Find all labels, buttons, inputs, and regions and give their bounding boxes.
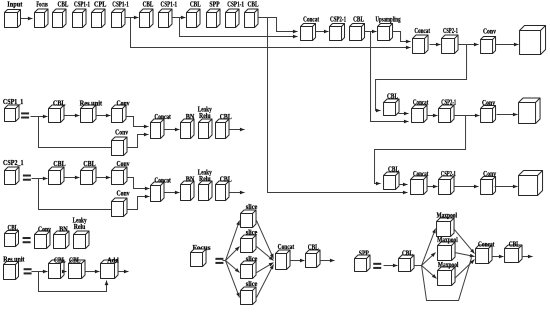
svg-text:BN: BN [186,176,195,184]
block Res unit symbol cube [4,262,19,280]
svg-text:Upsampling: Upsampling [376,15,401,23]
block CBL (backbone group2) [140,1,154,28]
wire CBL to Concat (row4) [399,183,408,187]
wire Conv upper to Concat upper (csp2) [127,178,150,191]
wire fan to slice1 [226,221,240,261]
wire CSP1_1 branch [31,116,39,118]
wire P5 long branch to row4 Concat [268,18,408,195]
block Leaky Relu (csp1) [198,106,212,139]
block Upsampling (row2) [376,15,401,40]
wire Concat to CSP2-1 [316,30,329,34]
block Maxpool2 (spp) [437,236,458,261]
wire fan stub (focus) [223,260,226,262]
block Concat (spp) [476,241,495,264]
wire CBL junction [365,31,371,33]
wire CBL out arrow (csp1) [230,128,245,132]
wire Input to Focus [21,17,33,21]
svg-text:CBL: CBL [387,93,398,101]
wire Conv to output (row4) [495,185,518,189]
svg-text:slice: slice [246,255,258,263]
label CSP2_1 header [3,159,24,167]
wire Res unit to Conv (csp1) [96,114,111,118]
block CBL out (csp2) [216,176,232,201]
equals CSP2_1 [23,175,31,181]
block slice4 (focus) [241,280,258,304]
block CBL (row3) [384,93,400,116]
wire backbone junction P4 [173,17,180,19]
svg-text:Concat: Concat [278,243,295,251]
block CBL (row2) [350,15,365,40]
wire Res unit branch [32,271,39,273]
svg-text:CBL: CBL [83,160,96,168]
svg-text:CBL: CBL [53,160,66,168]
svg-text:Res unit: Res unit [80,100,103,108]
svg-text:Conv: Conv [117,100,130,108]
svg-text:CBL: CBL [509,241,520,249]
svg-text:CSP1-1: CSP1-1 [227,1,244,9]
svg-text:Concat: Concat [478,241,495,249]
wire Maxpool3 to Concat [455,260,475,279]
svg-text:CBL: CBL [143,1,154,9]
svg-text:Relu: Relu [199,175,211,183]
equals CBL [23,237,31,243]
wire Conv to output (row3) [497,113,518,117]
wire Concat to BN (csp1) [165,128,180,132]
block BN (csp2) [181,176,195,201]
svg-text:CBL: CBL [220,113,232,121]
svg-text:Concat: Concat [154,113,171,121]
svg-text:CSP2-1: CSP2-1 [441,170,456,178]
block CSP1-1 (backbone group1) [73,1,91,28]
svg-text:CSP2-1: CSP2-1 [443,27,458,35]
svg-text:slice: slice [246,229,258,237]
svg-text:CBL: CBL [58,1,69,9]
svg-text:Relu: Relu [74,223,86,231]
wire bypass (spp) [422,258,472,301]
block Conv lower (csp1) [112,128,129,155]
block Concat (csp1) [151,113,172,138]
label Res unit header [3,256,25,264]
wire CBL1 to CBL2 (res) [62,270,67,274]
block slice1 (focus) [241,203,258,227]
block CSP2_1 symbol cube [5,167,20,185]
block output feature-map medium [519,98,541,124]
block CPL (backbone group1) [92,1,107,28]
label SPP header [359,250,370,258]
svg-text:CBL: CBL [353,15,364,23]
svg-text:CBL: CBL [69,256,81,264]
wire arrow into Upsampling [371,30,377,34]
block Leaky Relu (csp2) [198,169,212,201]
svg-text:Add: Add [107,256,119,264]
wire arrow into CBL1 (res) [39,270,48,274]
block CBL symbol cube [5,231,19,247]
block CBL (csp1) [49,100,66,123]
block CBL1 (res) [49,256,66,278]
wire Concat to BN (csp2) [165,191,180,195]
block output feature-map large [520,26,546,55]
wire CBL to fan (spp) [414,265,422,267]
block CSP2-1 (row4) [439,170,457,195]
block Maxpool1 (spp) [436,211,457,236]
svg-text:Concat: Concat [414,27,430,35]
wire CSP2-1 out junction (row3) [455,115,466,117]
svg-text:CSP1-1: CSP1-1 [161,1,178,9]
wire CBL2 to Conv (csp2) [97,176,111,180]
wire arrow into group3 CBL [180,16,186,20]
wire backbone to row2 Concat upper [268,18,298,34]
wire CBL1 to CBL2 (csp2) [65,176,80,180]
block Conv upper (csp1) [112,100,130,123]
wire CBL to Res unit (csp1) [65,114,80,118]
wire Conv lower to Concat lower (csp2) [127,195,150,210]
block Concat (row3) [412,99,429,123]
wire arrow into CBL1 (csp2) [39,177,48,181]
svg-text:CSP2_1: CSP2_1 [3,159,24,167]
block output feature-map small [519,171,543,196]
svg-text:CBL: CBL [388,166,399,174]
wire Concat to CSP2-1 (row2b) [430,43,441,47]
block CSP1-1 (backbone group1) [112,1,130,28]
block Conv (row4) [481,170,497,194]
block CSP2-1 (row3) [439,99,457,123]
svg-text:CBL: CBL [308,243,319,251]
block Maxpool3 (spp) [438,261,459,285]
wire lower branch to Conv lower (csp1) [39,117,112,148]
wire fan to Maxpool2 [422,253,436,266]
block Focus symbol cube [191,249,207,267]
svg-text:Conv: Conv [482,99,495,107]
block Concat (row2) [301,15,320,40]
equals Res unit [24,268,32,274]
wire arrow into Conv (row2b) [467,43,479,47]
block Concat (row4) [411,170,429,195]
svg-text:Conv: Conv [483,28,496,36]
wire lower branch to Conv lower (csp2) [39,179,112,210]
svg-text:Conv: Conv [38,225,51,233]
svg-text:CBL: CBL [53,100,66,108]
svg-text:Conv: Conv [483,170,496,178]
wire P3 branch down/right to Concat2 [131,18,411,50]
wire fan to Maxpool1 [422,229,436,266]
svg-text:CSP2-1: CSP2-1 [330,15,346,23]
wire CBL2 to Add (res) [85,270,100,274]
label CBL header [8,224,19,232]
svg-text:Conv: Conv [117,160,130,168]
wire arrow into CBL (csp1) [39,115,48,119]
svg-text:CBL: CBL [54,256,66,264]
block CBL1 (csp2) [49,160,66,184]
svg-text:CSP1-1: CSP1-1 [74,1,90,9]
block CBL (backbone group3) [187,1,201,28]
equals Focus [215,258,223,264]
wire loop down to row4 CBL [375,116,466,186]
wire arrow into group2 CBL [131,16,139,20]
svg-text:Maxpool: Maxpool [436,211,457,219]
wire branch down to row3 Concat lower [371,32,409,124]
block CBL (backbone group3) [245,1,259,28]
block CBL (spp) [399,250,415,272]
block CBL2 (csp2) [81,160,97,184]
wire fan to slice4 [226,261,240,298]
wire P4 branch down/right to Concat1 [180,18,298,39]
svg-text:CBL: CBL [220,176,232,184]
svg-text:Input: Input [7,1,23,9]
label Focus header [193,244,211,252]
wire CBL out arrow (csp2) [230,191,245,195]
wire CSP2_1 branch [32,178,39,180]
wire slice2 to Concat [257,247,274,261]
svg-text:SPP: SPP [209,1,220,9]
wire CSP2-1 out junction (row2b) [458,44,467,46]
svg-text:Concat: Concat [413,99,429,107]
svg-text:Concat: Concat [303,15,319,23]
wire fan to slice3 [226,261,240,273]
wire Conv lower to Concat lower (csp1) [127,133,149,148]
block Conv (cbl) [35,225,52,248]
wire slice4 to Concat [257,265,274,298]
block CBL2 (res) [69,256,86,278]
wire fan to Maxpool3 [422,266,437,279]
wire CBL out arrow (focus) [320,259,335,263]
svg-text:Concat: Concat [413,170,429,178]
wire Concat to CBL (focus) [290,259,305,263]
svg-text:Maxpool: Maxpool [437,236,458,244]
wire Concat to CSP2-1 (row4) [427,185,438,189]
block slice2 (focus) [241,229,258,253]
svg-text:CBL: CBL [248,1,259,9]
svg-text:BN: BN [186,113,195,121]
block Conv upper (csp2) [112,160,130,184]
svg-text:CSP2-1: CSP2-1 [441,99,456,107]
svg-text:BN: BN [59,225,68,233]
block CSP1-1 (backbone group3) [226,1,245,28]
wire CBL to Concat (row3) [399,112,409,116]
svg-text:CBL: CBL [402,250,413,258]
equals CSP1_1 [21,112,29,118]
svg-text:slice: slice [246,203,258,211]
block Input [5,1,23,28]
block CBL out (csp1) [216,113,232,138]
wire Conv to output (row2b) [496,43,519,47]
block BN (cbl) [54,225,70,248]
wire Maxpool1 to Concat [454,229,475,254]
block Concat (row2b) [413,27,431,53]
wire Upsampling to Concat (row2b) upper [393,32,411,44]
wire fan to slice2 [226,247,240,261]
wire Add out arrow (res) [118,270,129,274]
wire backbone out junction P5 [259,17,268,19]
block CBL (backbone group1) [53,1,69,28]
wire slice1 to Concat [257,221,274,259]
wire loop down to row3 CBL [376,45,467,113]
svg-text:Conv: Conv [117,190,130,198]
block Add (res) [101,256,119,278]
block Concat (focus) [276,243,295,270]
wire CSP2-1 to Conv (row4) [455,185,479,189]
block Leaky Relu (cbl) [73,216,89,248]
wire slice3 to Concat [257,263,274,273]
svg-text:CSP1-1: CSP1-1 [112,1,129,9]
block CBL (row4) [384,166,400,190]
wire arrow into Conv (row3) [466,114,480,118]
block Concat (csp2) [151,176,172,201]
block Conv (row3) [481,99,496,122]
wire arrow into CBL (spp) [384,264,398,268]
equals SPP [373,263,381,269]
block CBL (spp) [505,241,523,263]
block SPP (backbone group3) [207,1,221,28]
block Focus (backbone group1) [35,1,49,28]
block CBL (focus) [306,243,321,267]
wire skip connection (res) [39,272,109,292]
svg-text:Maxpool: Maxpool [438,261,459,269]
wire Maxpool2 to Concat [455,253,475,258]
block CSP1_1 symbol cube [5,105,20,122]
svg-text:Focus: Focus [36,1,48,9]
block CSP2-1 (row2b) [442,27,459,53]
wire Concat to CBL (spp) [493,255,504,259]
wire Concat to CSP2-1 (row3) [427,114,438,118]
block Res unit (csp1) [80,100,103,123]
block CSP2-1 (row2) [330,15,347,40]
block SPP symbol cube [355,255,371,272]
block Conv (row2b) [481,28,497,54]
block BN (csp1) [181,113,195,138]
wire Conv upper to Concat upper (csp1) [127,117,149,129]
svg-text:CPL: CPL [94,1,107,9]
block slice3 (focus) [241,255,258,279]
block Conv lower (csp2) [112,190,130,217]
svg-text:Conv: Conv [115,128,128,136]
svg-text:Relu: Relu [199,112,211,120]
svg-text:Concat: Concat [154,176,171,184]
wire CBL out arrow (spp) [522,255,533,259]
svg-text:CBL: CBL [190,1,201,9]
label CSP1_1 header [3,98,24,106]
block CSP1-1 (backbone group2) [159,1,178,28]
svg-text:slice: slice [246,280,258,288]
wire backbone junction P3 [125,17,131,19]
